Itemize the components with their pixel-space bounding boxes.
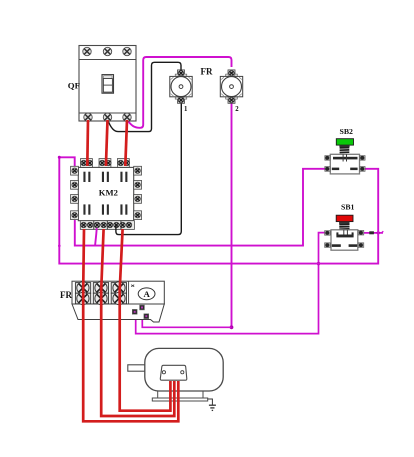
svg-text:FR: FR — [201, 66, 213, 76]
wire magenta fuse 2 down — [231, 104, 233, 328]
node corner dot left vertical top — [58, 156, 61, 159]
thermal relay FR terminal cells — [75, 282, 126, 305]
svg-text:QF: QF — [68, 80, 80, 90]
thermal relay FR body — [72, 281, 164, 322]
motor M feet and base — [152, 391, 207, 401]
pushbutton SB1 spring — [339, 224, 349, 229]
ammeter A — [131, 285, 155, 300]
wire magenta SB2 right down and long return to KM2 coil — [59, 157, 378, 263]
pushbutton SB1 cap — [336, 215, 353, 224]
pushbutton SB2 cap — [336, 139, 353, 148]
wire red L3 QF to KM2 — [125, 120, 127, 166]
wire black QF to fuse 1 — [108, 62, 181, 131]
node stub on left vertical — [58, 245, 61, 248]
wire red L1 QF to KM2 — [86, 120, 89, 166]
ground — [208, 399, 216, 410]
thermal relay FR small terminals — [132, 305, 148, 318]
contactor KM2 right terminal blocks — [134, 166, 142, 219]
node junction fuse2 FR — [230, 325, 234, 329]
breaker QF top terminal screws — [83, 47, 131, 55]
wire black fuse 1 to KM2 — [116, 104, 181, 235]
node junction SB1 branch — [317, 262, 320, 265]
pushbutton SB2 body — [330, 154, 359, 174]
screw over coil wire — [94, 222, 99, 227]
motor M body — [145, 348, 223, 391]
breaker QF body — [79, 46, 136, 122]
pushbutton SB2 terminals — [325, 156, 365, 172]
contactor KM2 bottom terminal blocks — [80, 221, 134, 230]
terminal lug on SB1 right wire — [369, 231, 374, 234]
breaker QF toggle — [102, 75, 114, 94]
svg-text:FR: FR — [60, 290, 72, 300]
wire red L2 KM2 to FR to motor V — [101, 229, 174, 416]
breaker QF bottom terminal screws — [84, 113, 131, 121]
wire magenta FR terminal to SB1 — [136, 233, 326, 334]
motor M shaft — [128, 365, 145, 371]
svg-text:SB1: SB1 — [341, 203, 355, 212]
node junction SB1 right — [377, 231, 380, 234]
contactor KM2 top terminal blocks — [81, 159, 130, 168]
svg-text:SB2: SB2 — [340, 127, 354, 136]
wire red L3 KM2 to FR to motor W — [120, 229, 171, 411]
pushbutton SB1 terminals — [325, 230, 364, 247]
wire magenta SB1 right out — [361, 232, 383, 234]
wire magenta QF to fuse 2 — [127, 57, 232, 128]
wire red L2 QF to KM2 — [106, 120, 108, 166]
wire magenta SB2 left to KM2 — [75, 169, 327, 246]
svg-text:KM2: KM2 — [99, 187, 118, 197]
fuse FR 2 — [220, 70, 242, 103]
wire red L1 KM2 to FR to motor U — [83, 229, 178, 421]
pushbutton SB2 spring — [340, 148, 350, 153]
wire magenta KM2 coil curve — [95, 222, 97, 246]
wire end tick SB1 right — [382, 231, 384, 233]
svg-text:2: 2 — [235, 106, 239, 113]
wire magenta FR terminal to junction — [142, 309, 231, 327]
contactor KM2 left terminal blocks — [71, 166, 79, 219]
motor M terminal box — [160, 365, 187, 380]
pushbutton SB1 body — [331, 230, 358, 250]
fuse FR 1 — [170, 70, 192, 103]
contactor KM2 body — [78, 167, 133, 220]
svg-text:A: A — [144, 289, 151, 299]
svg-text:1: 1 — [184, 106, 188, 113]
contactor KM2 contact bars — [83, 172, 127, 215]
